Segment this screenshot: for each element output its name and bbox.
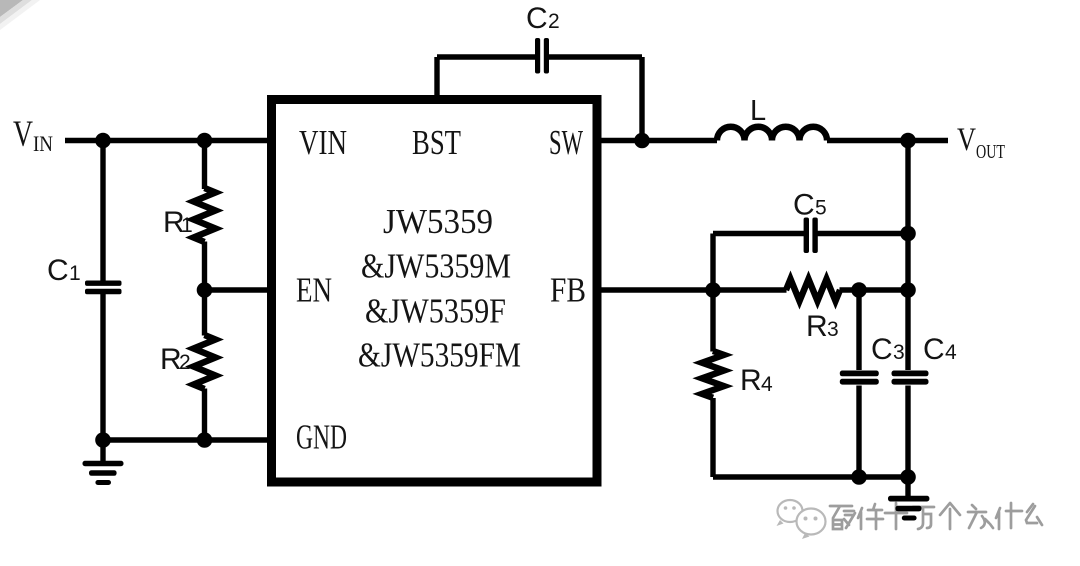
wire SW to inductor: [597, 138, 717, 143]
wire VIN input: [65, 138, 269, 143]
svg-text:4: 4: [761, 373, 773, 396]
watermark text 硬件十万个为什么 (approx strokes): [830, 503, 1042, 529]
label C4: [923, 333, 957, 366]
svg-text:&JW5359FM: &JW5359FM: [358, 336, 521, 375]
label C2: [526, 2, 560, 35]
什: [996, 503, 1022, 529]
capacitor C1 plates: [85, 281, 122, 295]
个: [940, 503, 960, 529]
svg-text:&JW5359M: &JW5359M: [361, 247, 511, 286]
wire C3 top: [856, 290, 861, 370]
inductor L: [717, 127, 827, 141]
wire R1 top: [202, 141, 207, 190]
svg-text:3: 3: [893, 341, 905, 364]
wire C5 row left: [713, 231, 804, 236]
label R2: [160, 343, 191, 376]
wire R4 bottom: [710, 398, 715, 477]
svg-text:L: L: [750, 95, 766, 127]
op-amp / IC box U1 JW5359: [272, 100, 598, 483]
wire ground2 stem: [905, 477, 910, 496]
label R1: [163, 206, 193, 239]
wire C2 down to SW: [639, 57, 644, 141]
wire C3 bottom: [856, 386, 861, 478]
svg-text:C: C: [871, 333, 893, 366]
svg-text:C: C: [47, 254, 69, 287]
wire BST vertical: [434, 57, 439, 99]
件: [858, 504, 883, 529]
svg-text:V: V: [957, 122, 976, 158]
svg-text:C: C: [526, 2, 548, 35]
page corner shadow top-left: [0, 0, 40, 30]
node VIN label: [13, 114, 53, 156]
node VOUT label: [957, 122, 1005, 163]
capacitor C4 plates: [892, 371, 929, 385]
wire C4 bottom: [905, 386, 910, 478]
svg-text:EN: EN: [296, 271, 332, 310]
svg-text:1: 1: [181, 214, 193, 237]
wire R3 right to node: [840, 287, 909, 292]
watermark logo (wechat bubbles): [777, 500, 826, 539]
ground (right, below C4): [888, 496, 929, 521]
么: [1026, 504, 1042, 525]
svg-text:C: C: [793, 189, 815, 222]
svg-text:FB: FB: [550, 271, 586, 310]
wire ground1 stem: [100, 440, 105, 461]
wire C1 top: [100, 141, 105, 282]
svg-text:2: 2: [179, 351, 191, 374]
wire EN: [205, 287, 270, 292]
label C5: [793, 189, 827, 222]
wire bottom row: [713, 474, 908, 479]
IC part number text: [358, 202, 521, 375]
svg-text:IN: IN: [33, 131, 53, 156]
svg-text:JW5359: JW5359: [383, 202, 493, 241]
svg-text:3: 3: [827, 318, 839, 341]
wire GND row: [103, 437, 269, 442]
capacitor C5 plates: [804, 218, 818, 254]
为: [968, 505, 993, 528]
resistor R1: [194, 188, 216, 242]
svg-text:C: C: [923, 333, 945, 366]
wire R2 top: [202, 290, 207, 336]
svg-text:OUT: OUT: [976, 141, 1005, 163]
十: [885, 503, 907, 529]
wire C2 right: [549, 54, 643, 59]
svg-text:&JW5359F: &JW5359F: [365, 292, 506, 331]
label C3: [871, 333, 905, 366]
wire FB: [597, 287, 787, 292]
wire inductor to VOUT: [827, 138, 948, 143]
svg-text:V: V: [13, 114, 33, 155]
capacitor C3 plates: [840, 371, 879, 385]
wire VOUT vertical top: [905, 141, 910, 371]
硬: [830, 506, 855, 529]
wire C1 bottom: [100, 294, 105, 440]
svg-text:2: 2: [548, 10, 560, 33]
ground (left, below C1): [83, 461, 124, 485]
wire C5 left leg: [710, 234, 715, 291]
svg-text:GND: GND: [296, 418, 347, 457]
svg-text:R: R: [740, 364, 762, 397]
wire C5 row right: [817, 231, 908, 236]
wire R1 bottom / EN junction: [202, 242, 207, 291]
wire R2 bottom: [202, 389, 207, 441]
万: [913, 507, 934, 529]
wire R4 top: [710, 290, 715, 352]
svg-text:R: R: [806, 310, 828, 343]
wire C2 left: [437, 54, 536, 59]
label R4: [740, 364, 773, 397]
label R3: [806, 310, 839, 343]
svg-text:1: 1: [69, 262, 81, 285]
svg-text:BST: BST: [412, 123, 461, 162]
resistor R3: [786, 279, 840, 301]
svg-text:5: 5: [815, 197, 827, 220]
resistor R2: [194, 335, 216, 389]
capacitor C2 plates: [535, 38, 549, 74]
label C1: [47, 254, 81, 287]
svg-text:VIN: VIN: [299, 123, 347, 162]
svg-text:SW: SW: [549, 123, 583, 162]
svg-text:4: 4: [945, 341, 957, 364]
resistor R4: [702, 351, 724, 398]
